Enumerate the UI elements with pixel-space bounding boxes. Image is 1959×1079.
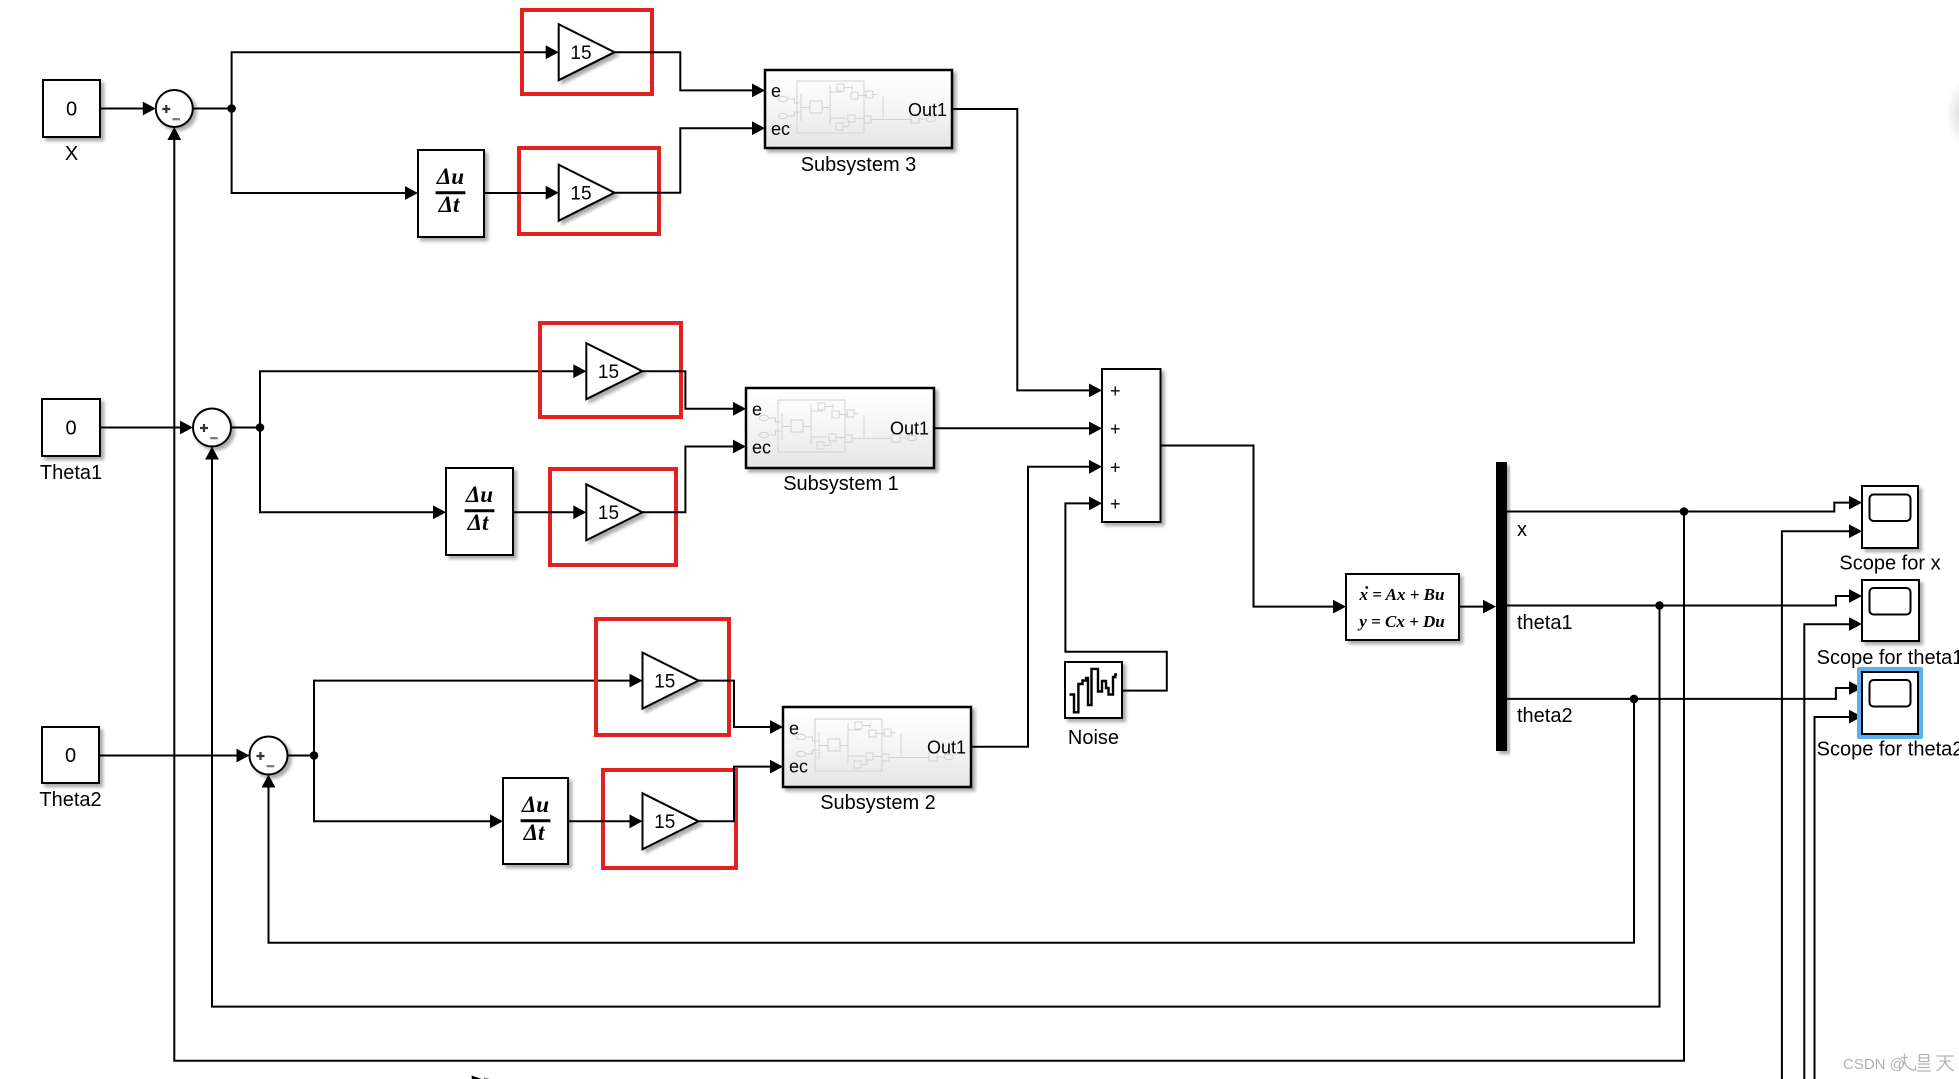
svg-text:15: 15	[654, 671, 675, 692]
wire Gain6 to Subsystem2 ec	[699, 760, 784, 822]
wire offscreen to Scope for theta1 input 2	[1804, 617, 1862, 1079]
svg-text:Scope for theta2: Scope for theta2	[1817, 739, 1959, 761]
svg-text:+: +	[1110, 458, 1121, 478]
wire Theta2 to Sum3	[99, 749, 250, 763]
node x (demux output x)	[1507, 507, 1688, 541]
red annotation box 1	[522, 10, 652, 94]
constant Theta2	[39, 727, 101, 811]
derivative Delta u / Delta t 3	[503, 778, 568, 864]
wire offscreen to Scope for theta2 input 2	[1815, 710, 1863, 1079]
derivative Delta u / Delta t 2	[446, 468, 513, 555]
svg-text:theta2: theta2	[1517, 705, 1573, 727]
gain Gain4 value 15	[586, 484, 642, 540]
wire Subsystem1 Out1 to Add input 2	[934, 422, 1102, 436]
svg-text:0: 0	[66, 99, 77, 121]
wire node B down to Derivative2	[260, 428, 446, 520]
svg-text:0: 0	[65, 745, 76, 767]
svg-text:ec: ec	[789, 757, 808, 777]
sum Sum1	[156, 90, 193, 127]
gain Gain2 value 15	[559, 165, 615, 221]
wire theta1 to Scope for theta1 input 1	[1660, 589, 1863, 605]
svg-text:15: 15	[598, 503, 619, 524]
svg-text:Subsystem 2: Subsystem 2	[820, 792, 936, 814]
svg-text:+: +	[1110, 494, 1121, 514]
wire Derivative1 to Gain2	[484, 186, 559, 200]
wire Gain1 to Subsystem3 e	[615, 52, 766, 97]
wire theta2 to Scope for theta2 input 1	[1634, 681, 1862, 699]
wire Gain2 to Subsystem3 ec	[615, 121, 766, 192]
sum Sum3	[250, 737, 288, 775]
scope Scope for theta1	[1817, 580, 1959, 669]
wire Gain5 to Subsystem2 e	[699, 681, 784, 734]
svg-text:Δt: Δt	[438, 192, 460, 217]
wire node B up to Gain3	[260, 364, 586, 427]
red annotation box 2	[519, 148, 659, 234]
svg-text:ec: ec	[752, 438, 771, 458]
svg-text:Out1: Out1	[890, 419, 929, 439]
svg-text:15: 15	[598, 362, 619, 383]
constant X	[43, 80, 100, 165]
svg-text:Scope for x: Scope for x	[1839, 553, 1940, 575]
wire offscreen to Scope for x input 2	[1782, 524, 1862, 1079]
svg-text:Scope for theta1: Scope for theta1	[1817, 647, 1959, 669]
wire X to Sum1	[100, 102, 156, 116]
svg-text:e: e	[752, 400, 762, 420]
svg-text:Theta1: Theta1	[40, 462, 102, 484]
scope Scope for x	[1839, 486, 1940, 575]
wire Gain4 to Subsystem1 ec	[642, 440, 746, 513]
node theta1 (demux output theta1)	[1507, 601, 1664, 634]
svg-text:theta1: theta1	[1517, 612, 1573, 634]
node theta2 (demux output theta2)	[1507, 695, 1638, 727]
watermark CSDN	[1843, 1054, 1954, 1074]
svg-text:ec: ec	[771, 119, 790, 139]
wire Derivative3 to Gain6	[568, 814, 643, 828]
svg-text:15: 15	[654, 812, 675, 833]
svg-text:0: 0	[65, 418, 76, 440]
subsystem Subsystem 1	[746, 388, 934, 495]
wire x to Scope for x input 1	[1684, 496, 1862, 512]
wire node A up to Gain1	[232, 45, 559, 108]
wire Subsystem3 Out1 to Add input 1	[952, 109, 1102, 397]
svg-text:e: e	[789, 719, 799, 739]
wire node C down to Derivative3	[314, 756, 503, 829]
svg-text:Subsystem 1: Subsystem 1	[783, 473, 899, 495]
red annotation box 4	[550, 469, 676, 565]
derivative Delta u / Delta t 1	[418, 150, 484, 237]
svg-text:Subsystem 3: Subsystem 3	[801, 154, 917, 176]
svg-text:+: +	[1110, 419, 1121, 439]
node B junction	[256, 423, 265, 432]
faint blob top right	[1946, 81, 1959, 145]
wire x feedback to Sum1 minus	[167, 127, 1684, 1061]
scope Scope for theta2 (selected, blue highlight)	[1817, 667, 1959, 761]
wire Sum3 out to node C	[288, 755, 315, 757]
subsystem Subsystem 3	[765, 70, 952, 176]
wire State-Space to Demux	[1459, 600, 1496, 614]
svg-text:Δt: Δt	[523, 820, 545, 845]
svg-text:y = Cx + Du: y = Cx + Du	[1357, 612, 1445, 631]
subsystem Subsystem 2	[783, 707, 971, 814]
svg-text:x = Ax + Bu: x = Ax + Bu	[1359, 585, 1445, 604]
wire Subsystem2 Out1 to Add input 3	[971, 460, 1102, 747]
gain Gain3 value 15	[586, 343, 642, 399]
svg-text:Δu: Δu	[521, 792, 549, 817]
state-space block x'=Ax+Bu y=Cx+Du	[1346, 574, 1459, 640]
gain Gain5 value 15	[643, 653, 699, 709]
gain Gain6 value 15	[643, 793, 699, 849]
node C junction	[310, 751, 319, 760]
red annotation box 6	[603, 770, 736, 868]
svg-text:15: 15	[570, 43, 591, 64]
svg-text:x: x	[1517, 519, 1527, 541]
red annotation box 3	[540, 323, 681, 417]
wire node A down to Derivative1	[232, 109, 418, 200]
noise source Noise	[1065, 662, 1122, 749]
svg-text:X: X	[65, 143, 78, 165]
svg-text:CSDN @: CSDN @	[1843, 1056, 1905, 1073]
svg-text:Theta2: Theta2	[39, 789, 101, 811]
wire Sum2 out to node B	[231, 427, 260, 429]
adder Add (4 plus inputs)	[1102, 369, 1161, 522]
wire Gain3 to Subsystem1 e	[642, 371, 746, 416]
node A junction	[227, 104, 236, 113]
wire Add to State-Space	[1161, 446, 1347, 614]
svg-text:e: e	[771, 81, 781, 101]
wire node C up to Gain5	[314, 674, 643, 756]
wire theta1 feedback to Sum2 minus	[205, 447, 1659, 1007]
gain Gain1 value 15	[559, 24, 615, 80]
wire Sum1 out to node A	[193, 108, 232, 110]
wire Theta1 to Sum2	[100, 421, 193, 435]
svg-text:Out1: Out1	[908, 100, 947, 120]
red annotation box 5	[596, 619, 729, 735]
mouse cursor at bottom	[472, 1076, 484, 1079]
wire Derivative2 to Gain4	[513, 505, 586, 519]
svg-text:Δu: Δu	[436, 164, 464, 189]
demux bar	[1496, 462, 1507, 751]
svg-text:Δt: Δt	[467, 510, 489, 535]
svg-text:Δu: Δu	[465, 482, 493, 507]
constant Theta1	[40, 399, 102, 484]
sum Sum2	[193, 409, 231, 447]
wire theta2 feedback to Sum3 minus	[262, 699, 1634, 943]
svg-text:Noise: Noise	[1068, 727, 1119, 749]
svg-text:15: 15	[570, 184, 591, 205]
svg-text:+: +	[1110, 381, 1121, 401]
wire Noise to Add input 4	[1065, 497, 1166, 691]
svg-text:Out1: Out1	[927, 738, 966, 758]
